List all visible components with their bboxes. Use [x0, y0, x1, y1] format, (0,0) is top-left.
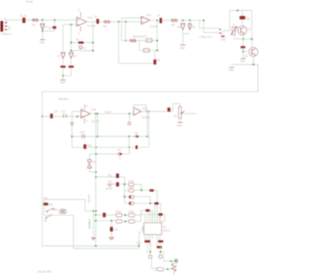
- junction dots rail: [252, 64, 254, 66]
- wire rail1 to rail2 jog: [139, 41, 157, 51]
- wire pot bottom: [179, 118, 181, 122]
- resistor R2 on rail: [76, 40, 84, 44]
- wire G5 out to R15: [136, 211, 146, 216]
- svg-text:IC2B: IC2B: [142, 109, 148, 111]
- wire join to node: [63, 68, 71, 76]
- junction dot: [42, 30, 44, 32]
- feedback vertical from output: [92, 22, 94, 51]
- lower rail: [231, 64, 258, 66]
- wire G6 out to R16: [136, 215, 159, 222]
- wire IC2 output to right: [162, 19, 204, 21]
- wire G2b out jog: [125, 197, 151, 204]
- wire G2c out to R14: [125, 202, 155, 204]
- resistor R11 blob: [116, 174, 119, 179]
- wire to R ladder: [96, 176, 116, 178]
- ground GND6: [177, 122, 183, 127]
- wire bottom row: [164, 260, 176, 262]
- wire gate G7 out: [165, 268, 176, 270]
- wire jack up to supply rail: [223, 11, 252, 31]
- capacitor C8 series: [94, 17, 99, 24]
- pot P2: [174, 107, 197, 119]
- op-amp IC2B: [134, 108, 151, 120]
- wire: [99, 21, 140, 23]
- gate G6: [129, 220, 135, 223]
- IC pins top comb: [145, 205, 159, 223]
- junction dots feedback: [70, 42, 72, 44]
- diode symbol on y154 wire: [117, 150, 124, 159]
- diode pair D4 D5: [87, 154, 96, 172]
- diode D2 branch: [188, 23, 196, 30]
- junction node x114: [118, 21, 120, 23]
- svg-text:DR/ADJ DOT: DR/ADJ DOT: [133, 35, 147, 38]
- svg-text:MIX-BUS: MIX-BUS: [59, 99, 69, 101]
- capacitor C6 blob: [69, 66, 74, 68]
- arrow terminal: [92, 238, 95, 240]
- junction node C: [182, 19, 184, 21]
- svg-text:TL072P: TL072P: [87, 26, 96, 28]
- feedback rail 2: [71, 50, 93, 52]
- wire long loop left vertical: [119, 22, 155, 64]
- junction node x125: [125, 21, 127, 23]
- svg-text:SQ-OUT: SQ-OUT: [89, 193, 91, 203]
- svg-text:AGND: AGND: [106, 188, 113, 191]
- wire G1 out jog: [134, 184, 142, 190]
- op-amp IC1B: [81, 109, 100, 123]
- gate G1: [129, 180, 135, 186]
- junction: [242, 38, 244, 40]
- resistor R21 blob: [43, 198, 53, 207]
- wire R13 to IC pin: [154, 190, 157, 223]
- trimmer P1: [231, 24, 238, 35]
- wire branch A down: [42, 20, 44, 40]
- svg-text:MOMENT: MOMENT: [90, 218, 92, 229]
- wire R11 out jog: [119, 177, 125, 203]
- diode/cap D1 to ground: [41, 23, 49, 30]
- svg-text:IC4B: IC4B: [129, 187, 135, 189]
- ground GND4 below R8 chain: [240, 59, 246, 64]
- IC pins bottom: [145, 235, 160, 253]
- svg-text:C14: C14: [80, 132, 85, 134]
- capacitor C7 between rails: [79, 46, 87, 50]
- wire R17: [111, 221, 113, 238]
- resistor R16: [158, 213, 162, 215]
- wire to gate G7 input: [152, 259, 158, 271]
- blob on rail2 ext: [136, 145, 138, 149]
- gnd arrow A2: [109, 238, 113, 240]
- junction dot: [62, 75, 64, 77]
- svg-text:GND: GND: [60, 83, 65, 85]
- svg-text:IC2A: IC2A: [146, 14, 152, 17]
- wire feedback left vertical x71: [70, 25, 72, 51]
- power pin down: [78, 26, 81, 35]
- wire upper input loop: [122, 18, 142, 41]
- footswitch junction: [95, 210, 97, 212]
- svg-text:IC4D: IC4D: [128, 212, 134, 214]
- connector X1 audio in: [0, 19, 11, 36]
- svg-text:C1 .1u: C1 .1u: [20, 16, 27, 18]
- wire R7 to Q1: [241, 19, 243, 25]
- wire drop to R5: [154, 50, 156, 63]
- junction on inverting rail: [70, 24, 72, 26]
- IC3 4011 DIP: [142, 223, 170, 235]
- wire main input rail: [6, 20, 77, 23]
- footswitch wire loop: [44, 200, 96, 249]
- ground AGND1: [106, 184, 113, 190]
- op-amp IC1A: [77, 17, 96, 28]
- resistor R14: [154, 202, 158, 204]
- svg-text:TL072P: TL072P: [142, 117, 151, 119]
- svg-text:SQ-IN: SQ-IN: [105, 112, 112, 114]
- wire feedback right vertical: [97, 114, 99, 137]
- wire to output jack pin 2: [204, 20, 219, 32]
- gate G3: [116, 212, 122, 217]
- wire inverting rail: [63, 24, 77, 26]
- capacitor C10 polarized: [177, 23, 185, 30]
- capacitor C4 blob: [60, 66, 65, 68]
- resistor R8: [241, 46, 246, 48]
- pot bottom to Q1 emitter branch: [234, 35, 243, 39]
- svg-text:IC4A: IC4A: [129, 180, 135, 183]
- wire branch y39 to Q2 collector line: [243, 38, 252, 40]
- capacitor C5 branch: [69, 52, 77, 59]
- svg-text:IC1A: IC1A: [87, 17, 93, 20]
- gate G7: [157, 268, 164, 271]
- wire R8 to base node: [242, 48, 244, 58]
- resistor R18 below IC: [145, 240, 151, 242]
- svg-text:C12: C12: [61, 112, 66, 114]
- junction: [93, 210, 95, 212]
- capacitor C9 series: [157, 15, 162, 23]
- jumper JP1: [32, 19, 39, 27]
- jack sleeve to ground: [222, 31, 224, 36]
- pin arrow 1: [219, 28, 221, 30]
- capacitor C17 blob on wire: [103, 213, 106, 218]
- Q2 emitter to rail: [252, 56, 254, 64]
- capacitor C15: [127, 123, 131, 125]
- wires between gate columns: [96, 215, 129, 221]
- green flag symbol: [175, 260, 178, 264]
- junction node B: [54, 19, 56, 21]
- pin arrow 2: [219, 32, 221, 34]
- feedback rails IC1B extended: [72, 136, 149, 147]
- svg-text:Aug 18, 2021: Aug 18, 2021: [38, 270, 52, 273]
- wire R14 to IC pin: [159, 203, 161, 223]
- junction at output vertical: [156, 19, 158, 21]
- gate G4: [116, 220, 122, 223]
- resistor R1: [49, 26, 57, 30]
- wire right vertical: [174, 261, 176, 275]
- resistor R15: [146, 209, 150, 211]
- capacitor C13 on vertical: [70, 123, 74, 125]
- wire output IC2B: [141, 110, 167, 112]
- gate G2: [125, 187, 135, 192]
- feedback rail 1 IC2: [122, 40, 158, 42]
- resistor R3 hollow on rail1: [146, 39, 152, 43]
- diode symbol on rail1 ext: [134, 133, 138, 138]
- wire base y51.4: [243, 50, 248, 52]
- capacitor C12 series pale: [60, 112, 69, 118]
- wire G2 out to R13: [134, 189, 150, 191]
- pushbutton oval: [59, 209, 66, 213]
- wire collector drop from top rail: [251, 11, 253, 48]
- svg-text:C-REV OUT: C-REV OUT: [199, 37, 212, 39]
- wire vertical x125: [125, 22, 127, 41]
- svg-text:TL072P: TL072P: [150, 27, 159, 29]
- wire R16 to IC: [162, 215, 165, 222]
- svg-text:AUDIO-IN: AUDIO-IN: [1, 33, 12, 36]
- capacitor C14 on rail: [80, 132, 85, 138]
- svg-text:IC4C: IC4C: [116, 212, 122, 214]
- ground bar jack: [221, 36, 226, 42]
- svg-text:GND: GND: [180, 48, 185, 50]
- jumper JP2: [103, 20, 110, 28]
- power pins IC1B: [85, 105, 89, 124]
- wire column right below IC: [160, 243, 163, 262]
- wire column left below IC: [149, 243, 151, 255]
- wire y154 with series diode: [90, 153, 130, 155]
- wire to pot over: [170, 104, 180, 112]
- ground circle symbols: [149, 255, 162, 258]
- svg-text:GND: GND: [229, 70, 234, 72]
- wire: [62, 58, 64, 65]
- wire momentary vertical: [93, 211, 95, 238]
- feedback rail 1: [71, 42, 93, 44]
- wire feedback over top: [134, 105, 146, 112]
- svg-text:GND: GND: [221, 39, 226, 41]
- wire R15 to IC: [150, 211, 152, 224]
- junction dot mid: [95, 176, 97, 178]
- resistor R17 vertical: [110, 227, 113, 232]
- wire big net box: [42, 65, 258, 246]
- resistor R19 below IC: [158, 240, 163, 242]
- verticals up to IC2B output: [147, 111, 149, 147]
- wire middle input: [42, 115, 81, 117]
- junction dots diode branch: [95, 153, 97, 155]
- wire bus A up: [139, 232, 144, 246]
- diode chain D5: [172, 263, 177, 272]
- gate G5: [128, 212, 134, 217]
- junction dots output: [95, 113, 97, 115]
- switch S2: [44, 215, 52, 223]
- junction supply: [237, 10, 239, 12]
- ground GND5: [229, 67, 235, 71]
- junction at op-amp3 input: [76, 115, 78, 117]
- resistor R4 hollow on rail2: [144, 49, 150, 53]
- ground GND2: [60, 80, 66, 85]
- gate G2b: [129, 195, 134, 198]
- wire to output jack pin 1: [200, 20, 219, 28]
- wire feedback right vertical: [156, 20, 158, 50]
- wire long vertical to logic: [95, 114, 97, 246]
- ground GND3: [180, 45, 186, 50]
- wire branch B down through R1: [43, 20, 55, 31]
- resistor R7: [240, 16, 251, 20]
- wire x63 chain down: [62, 25, 64, 53]
- svg-text:GND: GND: [177, 125, 182, 127]
- wire output IC2A: [150, 19, 159, 21]
- op-amp IC2A: [141, 14, 158, 29]
- svg-text:GND: GND: [240, 61, 245, 63]
- svg-text:TL072P: TL072P: [91, 122, 100, 124]
- svg-text:R10: R10: [87, 145, 92, 147]
- resistor R10 blob on rail2: [84, 144, 93, 149]
- junction node A: [42, 19, 44, 21]
- junction dots: [149, 251, 151, 253]
- capacitor C1 series: [20, 16, 27, 23]
- capacitor C11 series blob: [50, 112, 59, 119]
- capacitor C16 series blob: [167, 108, 170, 112]
- svg-text:R21: R21: [44, 198, 49, 200]
- junction and cap branch x129: [128, 113, 130, 115]
- svg-text:GND: GND: [40, 43, 45, 45]
- wire op-amp1 output: [87, 21, 97, 23]
- wire R12 row: [113, 183, 129, 185]
- transistor Q1: [238, 26, 252, 35]
- wire feedback left vertical: [72, 111, 81, 147]
- wire output IC1B: [90, 113, 133, 115]
- wire down to R7: [241, 11, 243, 17]
- wire left gates feed 1: [96, 214, 116, 216]
- wire Q1 emitter down: [242, 35, 244, 46]
- resistor R12 blob: [116, 182, 119, 186]
- resistor R20 below IC: [157, 246, 162, 248]
- svg-text:IC1B: IC1B: [91, 109, 97, 111]
- gate G2c: [129, 202, 134, 205]
- resistor R13: [150, 189, 154, 191]
- power pin up: [78, 10, 81, 17]
- switch S1: [46, 208, 58, 212]
- jumper JP4: [171, 19, 177, 27]
- svg-text:4011N: 4011N: [163, 230, 170, 232]
- wire to join: [62, 68, 64, 80]
- wire lower bus B: [73, 246, 138, 249]
- svg-text:1st test: 1st test: [26, 1, 34, 4]
- junction node D: [189, 19, 191, 21]
- jumper JP3 on rail: [130, 35, 147, 42]
- svg-text:C10: C10: [177, 27, 182, 29]
- capacitor C3 branch: [57, 52, 65, 59]
- vertical link rail to y154 wire: [128, 136, 130, 154]
- ground GND1: [40, 40, 46, 45]
- wire branch C down: [183, 20, 190, 44]
- resistor R5 vertical blob: [154, 60, 161, 65]
- wire: [70, 58, 72, 65]
- transistor Q2: [245, 47, 258, 58]
